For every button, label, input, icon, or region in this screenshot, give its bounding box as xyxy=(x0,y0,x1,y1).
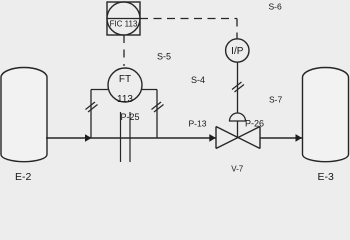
wire: pipe valve to E-3 xyxy=(260,137,302,139)
orifice line 1 (P-25) xyxy=(120,112,122,162)
svg-text:E-2: E-2 xyxy=(15,171,32,183)
signal wire: dashed FIC to I/P horizontal xyxy=(140,18,237,20)
arrow on pipe before valve V-7 xyxy=(209,134,216,142)
wire: FT bracket left vertical xyxy=(90,90,92,139)
svg-text:V-7: V-7 xyxy=(231,165,244,174)
tank E-3 xyxy=(303,68,349,162)
signal wire: dashed vertical to I/P xyxy=(236,19,238,40)
shared display line through FIC xyxy=(107,18,140,20)
svg-text:113: 113 xyxy=(117,94,133,105)
svg-text:P-25: P-25 xyxy=(121,112,140,122)
valve stem xyxy=(237,121,239,138)
tank E-2 xyxy=(1,68,47,162)
orifice line 2 (P-25) xyxy=(129,112,131,162)
tick marks on left bracket wire xyxy=(86,102,98,112)
svg-text:S-4: S-4 xyxy=(191,75,205,85)
svg-text:FIC 113: FIC 113 xyxy=(110,20,138,29)
svg-text:P-13: P-13 xyxy=(189,118,207,128)
controller FIC 113 square xyxy=(107,2,140,35)
wire: I/P to valve actuator xyxy=(237,62,239,114)
svg-text:P-26: P-26 xyxy=(245,118,264,128)
tick marks on right bracket wire xyxy=(152,102,164,112)
svg-text:S-7: S-7 xyxy=(269,95,283,105)
svg-text:I/P: I/P xyxy=(231,46,244,57)
svg-text:FT: FT xyxy=(119,74,131,85)
signal wire: dashed FIC to FT xyxy=(123,35,125,66)
controller FIC 113 circle xyxy=(107,2,140,35)
arrow on pipe at FT tap xyxy=(85,134,92,142)
arrow on pipe entering E-3 xyxy=(296,134,303,142)
valve V-7 body xyxy=(216,127,260,149)
wire: FT bracket right vertical xyxy=(156,90,158,139)
wire: FT bracket horizontal xyxy=(91,89,157,91)
svg-text:S-6: S-6 xyxy=(269,1,283,11)
I/P converter xyxy=(226,39,249,62)
svg-text:S-5: S-5 xyxy=(157,52,171,62)
tick marks on I/P wire xyxy=(232,82,244,92)
svg-text:E-3: E-3 xyxy=(318,171,335,183)
transmitter FT 113 xyxy=(108,68,142,102)
wire: main pipe E-2 to valve xyxy=(46,137,216,139)
valve actuator dome xyxy=(230,113,246,121)
